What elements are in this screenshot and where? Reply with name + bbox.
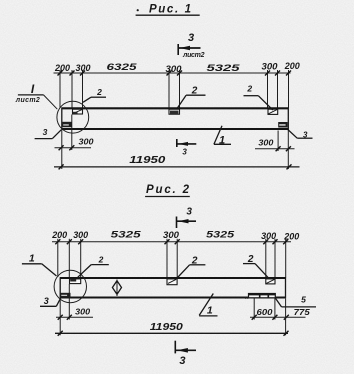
dimension 11950 (fig1) <box>54 130 300 169</box>
detail circle (fig2) <box>54 270 86 302</box>
dimension 300 bottom-right (fig1) <box>255 131 295 152</box>
callout 2 right (fig1) <box>244 84 273 111</box>
callout 2 middle (fig1) <box>178 86 206 108</box>
callout 1 middle (fig2) <box>199 294 217 317</box>
callout 5 right (fig2) <box>275 295 316 307</box>
callout 2 middle (fig2) <box>177 255 205 278</box>
sling point diamond (fig2) <box>112 280 121 297</box>
bottom plate 3 left (fig1) <box>62 122 72 127</box>
callout 2 right (fig2) <box>243 254 268 278</box>
detail label I / лист2 <box>15 82 58 109</box>
callout 3 left (fig2) <box>40 296 61 307</box>
callout 3 left (fig1) <box>35 127 62 139</box>
extension lines (top, fig1) <box>60 70 289 108</box>
embedded plate 2 right (fig2) <box>266 279 275 284</box>
section marker 3 (top, fig2) <box>177 207 197 229</box>
embedded plate 2 right (fig1) <box>268 109 278 114</box>
dimension 11950 (fig2) <box>55 299 289 336</box>
title Рис. 2 <box>145 184 190 197</box>
beam (fig2, item 1) <box>60 277 286 298</box>
dimension line (top, fig1) <box>54 72 291 74</box>
beam (fig1, item 1) <box>62 108 289 131</box>
bottom plate 3 left (fig2) <box>60 293 70 298</box>
embedded plate 2 middle (fig1) <box>169 109 180 114</box>
embedded plate 2 left (fig1) <box>73 109 83 114</box>
callout 1 left (fig2) <box>22 253 57 276</box>
section marker 3 (top, fig1) <box>178 32 205 59</box>
dimension ticks (top, fig1) <box>58 71 292 76</box>
dimension line (top, fig2) <box>52 241 291 243</box>
embedded plate 2 left (fig2) <box>70 279 81 284</box>
callout 2 left (fig2) <box>78 254 109 277</box>
dimension 300 bottom-left (fig2) <box>56 284 93 320</box>
title Рис. 1 <box>136 4 200 16</box>
detail circle (fig1) <box>57 101 89 133</box>
callout 3 right (fig1) <box>288 130 313 140</box>
dimension 600 / 775 bottom-right (fig2) <box>250 299 310 320</box>
bottom plate 5 right (fig2) <box>245 294 275 298</box>
callout 2 left (fig1) <box>83 87 106 102</box>
section marker 3 (bottom, fig1) <box>177 139 197 156</box>
extension lines (top, fig2) <box>58 239 286 278</box>
callout 1 (fig1) <box>214 126 231 147</box>
section marker 3 (bottom, fig2) <box>175 341 196 367</box>
bottom plate 3 right (fig1) <box>278 122 287 128</box>
scan noise texture <box>0 0 1 1</box>
dimension ticks (top, fig2) <box>55 239 288 244</box>
embedded plate 2 middle (fig2) <box>167 279 177 285</box>
dimension 300 bottom-left (fig1) <box>55 115 94 151</box>
